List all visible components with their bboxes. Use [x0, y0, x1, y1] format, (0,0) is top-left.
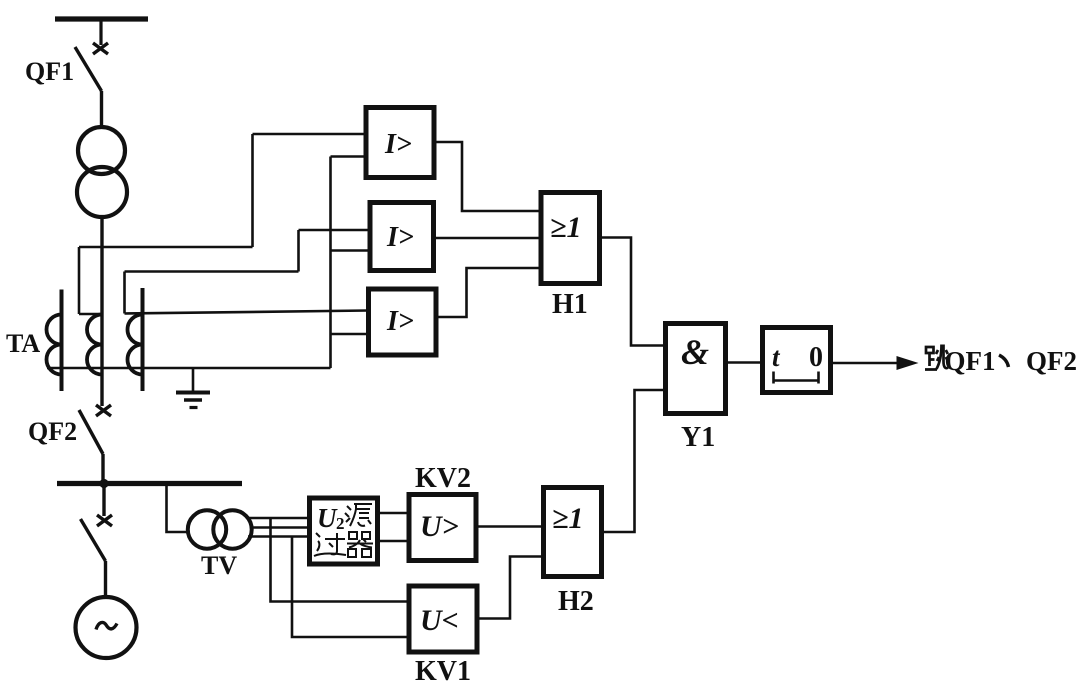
wire riser to I relay 1 [251, 134, 254, 247]
wire H1 output [598, 238, 665, 346]
current transformer TA3 bar [141, 288, 145, 391]
wire H2 to Y1 [603, 390, 667, 532]
hanzi 滤 (filter box row 1) [345, 504, 372, 526]
svg-text:QF1: QF1 [945, 346, 996, 376]
wire I relay 2 output [433, 237, 540, 240]
relay KV1 box (U<) [409, 586, 477, 652]
svg-text:U: U [317, 503, 338, 533]
AND gate Y1 box [666, 324, 726, 414]
breaker QF2 cross mark [96, 405, 111, 416]
svg-text:KV2: KV2 [415, 463, 471, 494]
svg-text:2: 2 [336, 514, 345, 533]
wire into I relay 2 input [299, 229, 371, 232]
wire tap to KV1 input 1 [271, 518, 410, 602]
svg-text:≥1: ≥1 [550, 211, 581, 244]
busbar top [55, 16, 148, 21]
node junction on bottom bus [99, 479, 108, 488]
wire KV2 output [474, 525, 545, 528]
wire filter to KV2 line 2 [376, 540, 410, 543]
wire TA3 to I relay 2 horizontal [125, 270, 299, 273]
wire Y1 to time element [723, 361, 764, 364]
svg-text:H2: H2 [558, 586, 594, 617]
wire busbar stub [99, 19, 102, 45]
filter block U2 box [310, 498, 378, 564]
current transformer TA1 winding [47, 315, 62, 375]
wire common return bottom [47, 367, 331, 370]
time element KT box [763, 328, 831, 393]
svg-text:0: 0 [809, 342, 823, 373]
relay KA2 box (I>) [370, 203, 434, 271]
voltage transformer TV winding 2 [213, 510, 251, 548]
svg-text:TV: TV [201, 551, 237, 580]
wire output to trip [829, 362, 899, 365]
generator G circle [76, 597, 137, 658]
wire TA2 secondary riser [78, 247, 81, 314]
current transformer TA2 winding [87, 315, 102, 375]
wire bus to disconnector [102, 484, 105, 517]
OR gate H2 box [544, 488, 602, 577]
current transformer TA3 winding [128, 315, 143, 375]
disconnector blade [81, 519, 106, 561]
time element delay symbol [774, 372, 819, 384]
relay KA3 box (I>) [369, 289, 437, 355]
svg-text:&: & [681, 332, 709, 372]
svg-text:I>: I> [384, 129, 412, 160]
svg-text:TA: TA [6, 329, 40, 358]
disconnector cross mark [97, 515, 112, 526]
hanzi 器 (filter box row 2) [347, 532, 373, 557]
breaker QF1 cross mark [93, 43, 108, 54]
hanzi 跳 (trip label) [925, 345, 948, 370]
svg-text:I>: I> [386, 222, 414, 253]
wire common to I relay 2 [331, 249, 371, 252]
svg-text:QF1: QF1 [25, 57, 74, 86]
punctuation dun-comma [999, 355, 1009, 367]
OR gate H1 box [541, 193, 600, 284]
wire QF2 to bottom bus [101, 454, 104, 483]
wire TA3 secondary riser [123, 272, 126, 314]
svg-text:I>: I> [386, 306, 414, 337]
wire common to I relay 3 [331, 333, 369, 336]
wire I relay 3 output [435, 268, 540, 317]
relay KA1 box (I>) [366, 108, 434, 178]
svg-text:QF2: QF2 [28, 417, 77, 446]
voltage transformer TV winding 1 [188, 510, 226, 548]
wire TV secondary line 1 [248, 517, 311, 520]
hanzi 过 (filter box row 2) [314, 533, 346, 556]
wire into I relay 1 input [253, 133, 367, 136]
svg-text:H1: H1 [552, 289, 588, 320]
breaker QF2 blade [79, 410, 103, 454]
generator G tilde [96, 622, 117, 629]
wire tap to KV1 input 2 [292, 537, 409, 638]
svg-text:QF2: QF2 [1026, 346, 1077, 376]
ground symbol [176, 391, 210, 395]
wire ground lead [192, 368, 195, 391]
relay KA1 symbol I> [317, 129, 583, 637]
current transformer TA1 bar [60, 290, 64, 392]
wire TV branch from bus [167, 484, 191, 533]
arrow head [897, 356, 919, 370]
wire transformer to QF2 (main column through TA2) [100, 217, 103, 406]
wire TA2 secondary tap [79, 313, 102, 316]
wire disconnector to generator [104, 561, 107, 597]
wire QF1 to transformer [100, 91, 103, 128]
wire I relay 1 output [433, 142, 540, 211]
svg-text:U>: U> [420, 510, 459, 543]
wire TV secondary line 3 [248, 535, 311, 538]
breaker QF1 blade [75, 47, 102, 91]
transformer T winding 2 [77, 167, 127, 217]
wire KV1 output to H2 [476, 557, 546, 619]
svg-text:≥1: ≥1 [552, 502, 583, 535]
svg-text:KV1: KV1 [415, 656, 471, 681]
wire filter to KV2 line 1 [376, 512, 410, 515]
svg-text:U<: U< [420, 604, 459, 637]
wire common return vertical [329, 157, 332, 369]
wire TA2 to I relay 1 horizontal [79, 246, 253, 249]
relay KV2 box (U>) [409, 495, 476, 561]
wire TA3 secondary line to I relay 3 [125, 311, 369, 314]
svg-text:Y1: Y1 [681, 422, 715, 453]
busbar bottom [57, 481, 242, 486]
wire common to I relay 1 [331, 155, 367, 158]
transformer T winding 1 [78, 127, 125, 174]
wire TV secondary line 2 [252, 526, 312, 529]
wire riser to I relay 2 [297, 230, 300, 272]
